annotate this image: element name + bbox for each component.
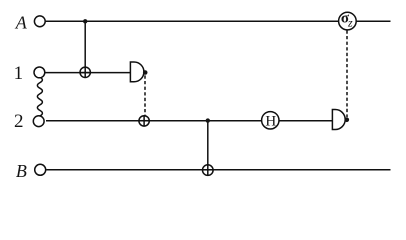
svg-text:z: z <box>347 16 353 30</box>
svg-text:1: 1 <box>14 63 24 84</box>
svg-text:H: H <box>265 113 276 129</box>
svg-text:2: 2 <box>14 111 24 132</box>
svg-text:B: B <box>16 161 27 181</box>
svg-text:A: A <box>15 13 28 33</box>
